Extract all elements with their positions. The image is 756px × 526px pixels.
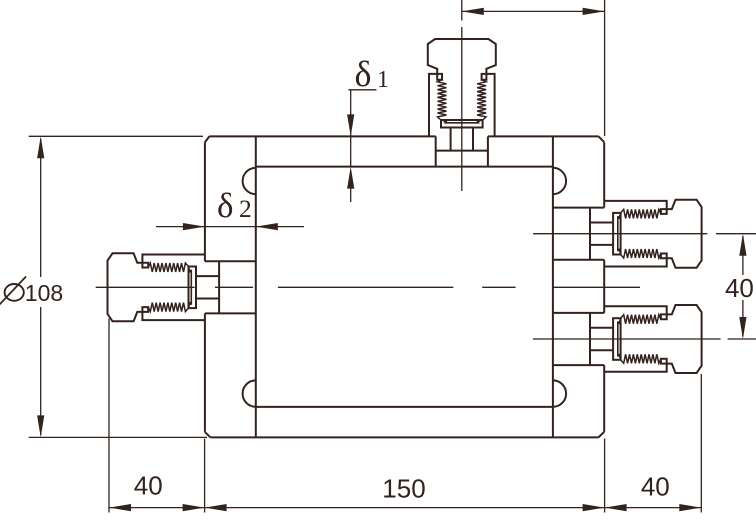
svg-text:108: 108: [25, 280, 63, 306]
diameter 108 dimension: [0, 136, 207, 437]
lower right fitting recess: [553, 313, 604, 365]
top dimension right extension line: [604, 0, 606, 136]
svg-text:40: 40: [134, 471, 163, 501]
centerline lower right fitting: [533, 338, 756, 340]
svg-text:δ: δ: [355, 54, 372, 94]
top fitting valve: [428, 39, 496, 151]
body outline: [205, 136, 604, 437]
right 40 dimension: [725, 234, 754, 339]
top fitting recess: [436, 136, 488, 166]
corner notch bottom-right: [553, 380, 566, 406]
svg-text:1: 1: [377, 67, 389, 93]
left fitting recess: [205, 261, 256, 313]
centerline upper right fitting: [533, 233, 756, 235]
bottom dimension lines: [109, 319, 701, 513]
corner notch bottom-left: [243, 380, 256, 406]
upper right fitting valve: [590, 200, 702, 268]
lower right fitting valve: [590, 305, 702, 373]
svg-text:2: 2: [239, 194, 252, 223]
svg-text:40: 40: [725, 273, 754, 303]
svg-text:40: 40: [641, 472, 670, 502]
upper right fitting recess: [553, 208, 604, 260]
left fitting valve: [107, 253, 219, 321]
centerline top fitting: [461, 0, 463, 191]
svg-text:150: 150: [382, 474, 425, 504]
svg-text:δ: δ: [217, 186, 234, 225]
top dimension line: [462, 8, 605, 15]
centerline horizontal axis: [96, 286, 640, 288]
delta2 dimension: [156, 186, 304, 230]
corner notch top-right: [553, 168, 566, 194]
delta1 dimension: [347, 54, 389, 202]
corner notch top-left: [243, 168, 256, 194]
